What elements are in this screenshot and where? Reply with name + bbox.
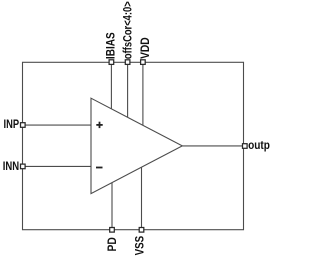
svg-text:VSS: VSS	[133, 236, 147, 256]
svg-text:INP: INP	[4, 117, 20, 131]
svg-text:PD: PD	[105, 237, 119, 252]
svg-text:IBIAS: IBIAS	[104, 32, 118, 59]
svg-text:INN: INN	[3, 159, 19, 173]
svg-text:outp: outp	[248, 138, 270, 152]
svg-text:VDD: VDD	[138, 37, 152, 59]
svg-text:offsCor<4:0>: offsCor<4:0>	[120, 1, 134, 59]
